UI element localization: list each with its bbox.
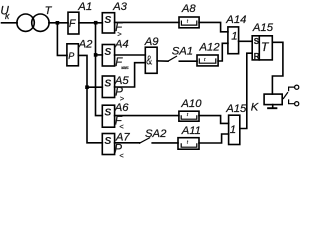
svg-text:A8: A8: [181, 3, 197, 15]
svg-text:A6: A6: [114, 102, 130, 114]
svg-text:A15: A15: [252, 22, 274, 34]
svg-text:R: R: [254, 52, 260, 61]
svg-text:K: K: [251, 101, 259, 113]
svg-text:S: S: [104, 78, 111, 89]
svg-text:S: S: [104, 108, 111, 119]
svg-text:S: S: [254, 37, 260, 46]
svg-text:>: >: [117, 29, 122, 38]
svg-text:1: 1: [231, 30, 237, 42]
svg-text:A9: A9: [144, 36, 160, 48]
svg-text:>: >: [120, 94, 125, 103]
svg-text:<: <: [119, 122, 124, 131]
svg-text:A7: A7: [115, 131, 131, 143]
svg-text:S: S: [104, 136, 111, 147]
svg-text:P: P: [68, 51, 74, 61]
svg-text:A2: A2: [78, 39, 94, 51]
svg-text:к: к: [5, 11, 10, 21]
svg-text:SA1: SA1: [172, 45, 193, 57]
svg-text:A15: A15: [225, 103, 247, 115]
svg-text:макс: макс: [121, 65, 129, 70]
svg-text:A10: A10: [180, 98, 202, 110]
svg-text:A14: A14: [225, 14, 246, 26]
svg-text:A1: A1: [77, 1, 92, 13]
svg-text:A11: A11: [181, 125, 201, 137]
svg-text:S: S: [104, 47, 111, 58]
svg-text:S: S: [104, 15, 111, 26]
svg-text:SA2: SA2: [145, 128, 167, 140]
svg-text:1: 1: [230, 124, 236, 136]
svg-text:A3: A3: [112, 1, 128, 13]
svg-text:A4: A4: [114, 38, 129, 50]
svg-text:A12: A12: [199, 42, 221, 54]
svg-text:&: &: [146, 52, 152, 67]
svg-text:<: <: [119, 151, 124, 160]
